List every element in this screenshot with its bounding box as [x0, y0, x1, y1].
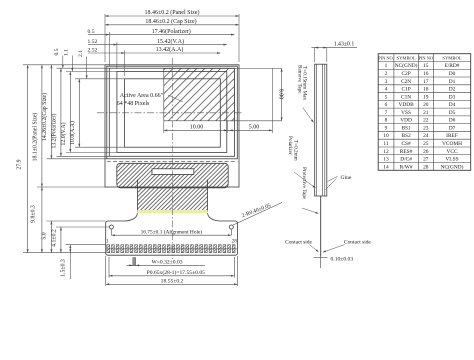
svg-text:18.55±0.2: 18.55±0.2 [161, 278, 184, 284]
svg-text:10.00: 10.00 [190, 124, 204, 130]
svg-text:0.10±0.03: 0.10±0.03 [331, 256, 354, 262]
svg-text:19: 19 [423, 94, 429, 100]
svg-text:D/C#: D/C# [400, 157, 412, 163]
svg-text:5.00: 5.00 [249, 125, 260, 131]
svg-text:11: 11 [383, 141, 388, 147]
svg-text:16: 16 [423, 71, 429, 77]
svg-text:16.75±0.1 (Alignment Hole): 16.75±0.1 (Alignment Hole) [141, 229, 203, 236]
svg-text:23: 23 [423, 125, 429, 131]
svg-text:T=0.15mm Max: T=0.15mm Max [302, 66, 308, 100]
svg-text:12.0(V.A): 12.0(V.A) [60, 122, 67, 145]
svg-text:9: 9 [385, 125, 388, 131]
svg-text:Protective Tape: Protective Tape [301, 167, 307, 200]
svg-text:18.46±0.2 (Cap Size): 18.46±0.2 (Cap Size) [145, 18, 196, 25]
svg-text:D2: D2 [449, 87, 456, 93]
svg-text:64 *48 Pixels: 64 *48 Pixels [117, 101, 150, 107]
svg-text:C2P: C2P [401, 71, 410, 77]
svg-text:4.1±0.2: 4.1±0.2 [51, 229, 57, 247]
svg-text:P0.65x(28-1)=17.55±0.05: P0.65x(28-1)=17.55±0.05 [147, 269, 205, 276]
svg-text:8.00: 8.00 [278, 89, 284, 100]
svg-text:W=0.32±0.03: W=0.32±0.03 [151, 260, 182, 266]
svg-text:1.52: 1.52 [88, 39, 98, 45]
svg-text:2: 2 [385, 71, 388, 77]
svg-text:15.42(V.A): 15.42(V.A) [157, 38, 184, 45]
svg-text:18.46±0.2 (Panel Size): 18.46±0.2 (Panel Size) [145, 9, 200, 16]
svg-text:D7: D7 [449, 125, 456, 131]
svg-text:D3: D3 [449, 94, 456, 100]
svg-text:14.26±0.2(Cap Size): 14.26±0.2(Cap Size) [41, 93, 48, 141]
svg-text:SYMBOL: SYMBOL [442, 55, 461, 60]
svg-text:8: 8 [385, 118, 388, 124]
svg-text:21: 21 [423, 110, 429, 116]
svg-text:VSS: VSS [401, 110, 411, 116]
svg-text:D1: D1 [449, 79, 456, 85]
svg-text:2.52: 2.52 [88, 47, 98, 53]
svg-text:13.2(Polarizer): 13.2(Polarizer) [51, 113, 58, 148]
svg-text:26: 26 [423, 149, 429, 155]
svg-text:10.0(A.A): 10.0(A.A) [69, 121, 76, 145]
svg-text:BS2: BS2 [401, 133, 411, 139]
svg-text:D4: D4 [449, 102, 456, 108]
svg-text:0.5: 0.5 [88, 29, 95, 35]
svg-text:9.8±0.3: 9.8±0.3 [31, 205, 37, 223]
svg-text:Contact side: Contact side [344, 240, 371, 246]
svg-text:24: 24 [423, 133, 429, 139]
svg-text:15: 15 [423, 63, 429, 69]
svg-text:28: 28 [232, 239, 238, 245]
svg-text:1: 1 [385, 63, 388, 69]
svg-text:E/RD#: E/RD# [445, 63, 460, 69]
svg-text:VCC: VCC [446, 149, 457, 155]
svg-text:1.43±0.1: 1.43±0.1 [334, 42, 355, 48]
svg-text:17.46(Polarizer): 17.46(Polarizer) [152, 28, 191, 35]
svg-text:C1N: C1N [401, 94, 411, 100]
svg-text:VDD: VDD [400, 118, 412, 124]
svg-text:SYMBOL: SYMBOL [397, 55, 416, 60]
svg-text:5: 5 [385, 94, 388, 100]
svg-text:VCOMH: VCOMH [442, 141, 462, 147]
svg-text:12: 12 [383, 149, 389, 155]
svg-text:2.1: 2.1 [78, 50, 84, 57]
svg-text:18: 18 [423, 87, 429, 93]
svg-text:1.5±0.3: 1.5±0.3 [61, 259, 67, 277]
svg-text:D5: D5 [449, 110, 456, 116]
svg-text:22: 22 [423, 118, 429, 124]
svg-text:NC(GND): NC(GND) [441, 163, 464, 170]
svg-text:D6: D6 [449, 118, 456, 124]
svg-text:BS1: BS1 [401, 125, 411, 131]
svg-text:25: 25 [423, 141, 429, 147]
svg-text:PIN NO.: PIN NO. [378, 55, 394, 60]
svg-text:18.1±0.2(Panel Size): 18.1±0.2(Panel Size) [32, 113, 39, 162]
svg-text:D0: D0 [449, 71, 456, 77]
svg-text:Glue: Glue [340, 175, 351, 181]
svg-text:RES#: RES# [400, 149, 413, 155]
svg-text:VLSS: VLSS [445, 157, 458, 163]
svg-text:13: 13 [383, 157, 389, 163]
svg-text:1.1: 1.1 [64, 49, 70, 56]
svg-text:20: 20 [423, 102, 429, 108]
svg-text:Active Area 0.66": Active Area 0.66" [120, 93, 164, 99]
svg-text:Polarizer: Polarizer [287, 136, 293, 155]
svg-text:13.42(A.A): 13.42(A.A) [156, 46, 184, 53]
svg-text:5.0: 5.0 [42, 232, 48, 239]
svg-text:1: 1 [106, 239, 109, 245]
svg-text:T=0.2mm: T=0.2mm [292, 140, 298, 161]
svg-text:4: 4 [385, 87, 388, 93]
svg-text:0.5: 0.5 [54, 48, 60, 55]
svg-text:3: 3 [385, 79, 388, 85]
svg-text:27.9: 27.9 [17, 159, 23, 169]
svg-text:R/W#: R/W# [400, 164, 413, 170]
svg-text:PIN NO: PIN NO [419, 55, 434, 60]
svg-text:14: 14 [383, 164, 389, 170]
svg-text:7: 7 [385, 110, 388, 116]
svg-text:Contact side: Contact side [285, 240, 312, 246]
svg-text:NC(GND): NC(GND) [395, 62, 418, 69]
svg-text:IREF: IREF [446, 133, 458, 139]
svg-text:CS#: CS# [401, 141, 411, 147]
svg-text:10: 10 [383, 133, 389, 139]
svg-text:17: 17 [423, 79, 429, 85]
svg-text:C2N: C2N [401, 79, 411, 85]
svg-text:28: 28 [423, 164, 429, 170]
svg-text:VDDB: VDDB [398, 102, 414, 108]
svg-text:27: 27 [423, 157, 429, 163]
svg-text:6: 6 [385, 102, 388, 108]
svg-text:C1P: C1P [401, 87, 410, 93]
